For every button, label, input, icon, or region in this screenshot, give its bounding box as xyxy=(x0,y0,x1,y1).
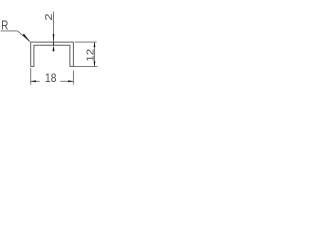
dim 2 arrow down (tip at outer top edge) xyxy=(53,34,55,42)
dim 2 arrow up (tip at inner top edge) xyxy=(53,45,55,51)
dim 2 line xyxy=(53,12,55,43)
dim 2 tail below arrow xyxy=(53,51,55,52)
U-channel profile outline xyxy=(31,42,74,66)
dim 12 arrow down xyxy=(94,61,96,66)
dim 18 line right segment xyxy=(60,80,73,82)
dim 2 line crossing web xyxy=(53,42,55,45)
svg-text:12: 12 xyxy=(85,49,96,62)
svg-text:2: 2 xyxy=(43,13,55,20)
leader R line xyxy=(1,31,30,42)
dim 18 arrow right xyxy=(68,80,73,82)
dim 18 arrow left xyxy=(31,80,36,82)
dim 18 left extension line xyxy=(30,68,32,85)
dim 18 right extension line xyxy=(72,71,74,85)
dim 18 line left segment xyxy=(31,80,40,82)
svg-text:18: 18 xyxy=(45,72,56,85)
dim 12 bottom extension line xyxy=(73,65,97,67)
dim 12 top extension line xyxy=(75,41,97,43)
background xyxy=(0,0,100,100)
dim 12 arrow up xyxy=(94,42,96,47)
leader R arrowhead xyxy=(23,34,31,42)
dim 12 line xyxy=(94,42,96,66)
